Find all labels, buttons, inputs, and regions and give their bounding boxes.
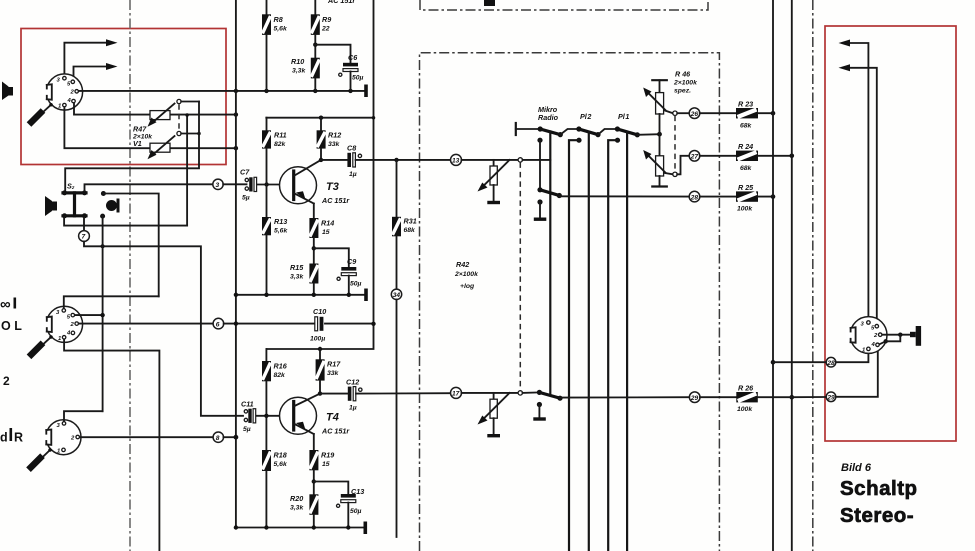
- svg-text:C8: C8: [347, 144, 356, 153]
- svg-text:C13: C13: [351, 487, 364, 496]
- speaker icon left margin top: [2, 82, 13, 101]
- svg-text:50µ: 50µ: [352, 75, 364, 82]
- svg-text:13: 13: [452, 158, 460, 165]
- svg-text:R 23: R 23: [738, 100, 753, 109]
- svg-text:1: 1: [58, 336, 61, 342]
- cable line from Pl2 lever down: [588, 132, 590, 551]
- wire node29 row to DIN pin 4: [792, 347, 878, 397]
- svg-text:4: 4: [871, 342, 876, 348]
- switch Pl2 pole a: [560, 126, 600, 137]
- resistor R9: [311, 0, 331, 58]
- capacitor C10: [310, 307, 326, 343]
- svg-text:2: 2: [873, 333, 878, 339]
- svg-text:68k: 68k: [740, 123, 753, 130]
- wire C10 to T4 supply rail: [267, 322, 376, 352]
- svg-text:50µ: 50µ: [350, 508, 362, 515]
- wire arrow to DIN pin 5: [849, 68, 877, 324]
- T4 stage ground rail: [234, 525, 364, 529]
- vertical bus x773: [771, 0, 776, 551]
- svg-text:∞: ∞: [0, 296, 11, 313]
- ground bar at mute contact: [534, 218, 547, 221]
- capacitor C12: [346, 378, 362, 412]
- svg-text:5µ: 5µ: [242, 195, 250, 202]
- chassis bar at end of pin2 rail: [364, 85, 368, 98]
- svg-text:68k: 68k: [740, 165, 753, 172]
- resistor R10: [291, 57, 320, 91]
- svg-text:34: 34: [393, 292, 401, 299]
- resistor R23: [700, 100, 776, 130]
- contact below Pl2 switch with cable: [569, 138, 582, 551]
- cable plug of DIN P1: [29, 103, 53, 124]
- wire R46b wiper to node 27: [677, 156, 689, 175]
- svg-text:2: 2: [3, 374, 10, 388]
- wire mute pole to node 28 row: [559, 195, 689, 197]
- wire node34 down: [396, 300, 398, 538]
- svg-text:d: d: [0, 431, 8, 445]
- resistor R15: [290, 263, 318, 295]
- svg-text:C6: C6: [348, 53, 358, 62]
- svg-text:2: 2: [70, 90, 75, 96]
- svg-text:R42: R42: [456, 260, 469, 269]
- node 34: [391, 289, 401, 299]
- svg-text:3,3k: 3,3k: [292, 68, 306, 75]
- resistor R14: [309, 204, 334, 264]
- switch bank terminator bar: [515, 123, 517, 135]
- wire aR pin2 to node 8: [80, 436, 213, 438]
- cable line from Pl1 lever down: [626, 132, 628, 551]
- label T3 AC151r: [321, 181, 350, 205]
- switch lower channel (mute b): [523, 390, 563, 418]
- svg-text:R 46: R 46: [675, 70, 691, 79]
- microphone icon at S2 pole2: [106, 199, 120, 213]
- svg-text:R 24: R 24: [738, 142, 753, 151]
- resistor R18: [262, 416, 288, 528]
- contact below Mikro switch: [537, 138, 542, 190]
- resistor R25: [700, 183, 776, 213]
- capacitor C13 (electrolytic): [314, 482, 364, 528]
- wire Pl1 to R46 junction: [637, 132, 662, 137]
- wire: R47a wiper feed down to S2: [65, 102, 199, 192]
- potentiometer R42a: [478, 160, 510, 204]
- connector DIN P2 (OL): [42, 306, 83, 342]
- cable line from Mikro lever down: [549, 132, 551, 395]
- switch S2 (speaker switch): [62, 182, 87, 219]
- arrow out top-left 2: [106, 63, 118, 70]
- vertical bus x791.8: [790, 0, 795, 551]
- wire: pin1 down to R47b row: [64, 107, 238, 150]
- red boundary box right (output section): [825, 26, 956, 441]
- resistor R16: [262, 349, 288, 416]
- svg-text:3,3k: 3,3k: [290, 274, 304, 281]
- svg-text:R12: R12: [328, 131, 341, 140]
- wire node13 to switch: [462, 159, 519, 161]
- potentiometer R47b (V1): [148, 131, 201, 159]
- wire: DIN P1 pin5 up and right to arrow: [74, 67, 109, 81]
- signal wire T4 collector to node 17: [320, 392, 451, 394]
- wire: S2 bottom-left loop: [64, 218, 187, 226]
- wire: pin4 to R47a row: [74, 103, 238, 117]
- gang link R47 dashed: [178, 104, 180, 131]
- gang mark R42a: [518, 158, 522, 162]
- svg-text:17: 17: [452, 391, 460, 398]
- transistor T3: [280, 158, 324, 204]
- chassis bar T4 rail: [364, 522, 368, 535]
- svg-text:R20: R20: [290, 494, 303, 503]
- resistor R26: [700, 384, 792, 414]
- svg-text:Pl 1: Pl 1: [618, 112, 629, 121]
- svg-text:28: 28: [826, 360, 835, 367]
- label R46: [673, 70, 698, 95]
- svg-text:R9: R9: [322, 15, 331, 24]
- arrow in top-right 1: [839, 40, 851, 47]
- svg-text:C11: C11: [241, 400, 254, 409]
- svg-text:O L: O L: [1, 319, 22, 333]
- capacitor C11: [241, 400, 256, 434]
- svg-text:C7: C7: [240, 168, 250, 177]
- connector DIN P4 (output right): [846, 317, 887, 354]
- svg-text:+log: +log: [460, 283, 475, 290]
- svg-text:R14: R14: [321, 219, 334, 228]
- svg-text:82k: 82k: [274, 141, 287, 148]
- capacitor C6 (electrolytic): [315, 45, 363, 91]
- svg-text:28: 28: [690, 194, 699, 201]
- node 28b at DIN: [826, 357, 836, 367]
- svg-text:5µ: 5µ: [243, 426, 251, 433]
- svg-text:26: 26: [690, 111, 699, 118]
- ground bar lower mute contact: [533, 417, 546, 420]
- wire lower mute pole to node 29 row: [560, 396, 689, 398]
- svg-text:82k: 82k: [274, 372, 287, 379]
- wire aR pin3 up to bus: [64, 411, 103, 421]
- capacitor C8: [347, 144, 362, 179]
- connector DIN P3 (aR): [42, 420, 82, 455]
- svg-text:15: 15: [322, 229, 330, 236]
- svg-text:C12: C12: [346, 378, 359, 387]
- switch Mikro/Radio pole b (mute): [537, 187, 562, 217]
- svg-text:100k: 100k: [737, 206, 753, 213]
- bottom bar R46: [652, 185, 667, 187]
- svg-text:Bild 6: Bild 6: [841, 462, 872, 474]
- svg-text:15: 15: [322, 461, 330, 468]
- S2 pole2 upper contact: [101, 191, 159, 296]
- svg-text:5,6k: 5,6k: [274, 228, 288, 235]
- cable plug of DIN P3: [29, 448, 52, 469]
- svg-text:27: 27: [690, 154, 699, 161]
- svg-text:33k: 33k: [327, 370, 340, 377]
- label Mikro Radio: [538, 105, 559, 122]
- svg-text:5,6k: 5,6k: [274, 461, 288, 468]
- svg-text:T4: T4: [326, 412, 339, 424]
- node 6: [213, 318, 224, 329]
- wire: R47a right terminal down: [186, 115, 188, 226]
- svg-text:R8: R8: [274, 15, 283, 24]
- svg-text:1: 1: [57, 449, 60, 455]
- svg-text:R47: R47: [133, 125, 147, 134]
- resistor R31: [392, 160, 417, 289]
- svg-text:8: 8: [216, 435, 220, 442]
- svg-text:1: 1: [58, 104, 61, 110]
- svg-text:R31: R31: [404, 217, 417, 226]
- svg-text:AC 151r: AC 151r: [327, 0, 356, 5]
- main vertical bus x236: [235, 0, 237, 528]
- label R42: [454, 260, 479, 290]
- wire OL pin1 down to shield bus: [64, 339, 159, 551]
- label T4 AC151r: [321, 412, 350, 436]
- contact below Pl1 switch with cable: [608, 138, 620, 551]
- svg-text:R 25: R 25: [738, 183, 754, 192]
- svg-text:1µ: 1µ: [349, 171, 357, 178]
- svg-text:R11: R11: [274, 131, 287, 140]
- potentiometer R46b: [643, 134, 673, 186]
- svg-text:50µ: 50µ: [350, 281, 362, 288]
- svg-text:1: 1: [862, 348, 865, 354]
- transistor T4: [280, 391, 323, 434]
- node 17: [451, 387, 462, 398]
- svg-text:2×100k: 2×100k: [673, 80, 698, 87]
- wire: node 7 down and right to T4 input feed: [84, 242, 243, 416]
- wire C11 to T4 base: [257, 414, 293, 418]
- svg-text:2: 2: [70, 436, 75, 442]
- wire node6 to C10: [224, 321, 315, 325]
- wire gang mark to mute contact: [523, 159, 551, 161]
- gang mark R46a: [673, 111, 677, 115]
- resistor R20: [290, 494, 318, 528]
- red boundary box left (tuner section): [21, 29, 226, 165]
- T3 stage ground rail: [234, 293, 366, 297]
- svg-text:C10: C10: [313, 307, 326, 316]
- dash-dot enclosure middle (switch unit): [420, 53, 720, 551]
- svg-text:4: 4: [66, 331, 71, 337]
- label R47 2x10k V1: [132, 125, 153, 149]
- svg-text:2×100k: 2×100k: [454, 271, 479, 278]
- wire OL pin5 to bus: [75, 313, 105, 317]
- resistor R11: [262, 118, 287, 185]
- potentiometer R42b: [478, 393, 510, 438]
- gang link R46 dashed: [674, 116, 676, 172]
- resistor R12: [317, 118, 342, 160]
- svg-text:Pl 2: Pl 2: [580, 112, 591, 121]
- cable plug of DIN P2: [29, 335, 53, 357]
- capacitor C9 (electrolytic): [314, 248, 362, 294]
- node 27: [689, 151, 700, 162]
- speaker icon at S2: [45, 196, 57, 216]
- S2 pole2 lower contact: [100, 214, 105, 412]
- wire node17 to switch: [462, 392, 519, 394]
- node 29: [689, 392, 700, 403]
- gang mark R46b: [673, 172, 677, 176]
- node 3: [213, 179, 223, 189]
- gang mark R42b: [518, 391, 522, 395]
- switch Mikro/Radio pole a: [516, 126, 563, 137]
- svg-text:T3: T3: [326, 181, 339, 193]
- wire node8 to bus x236: [224, 435, 239, 440]
- wire node28 row to DIN pin 1: [773, 351, 868, 362]
- wire: S2 top-right contact to node 3: [85, 184, 213, 191]
- T3 stage supply rail: [266, 116, 375, 120]
- node 8: [213, 432, 223, 442]
- resistor R19: [309, 434, 334, 494]
- svg-text:68k: 68k: [404, 227, 417, 234]
- resistor R17: [316, 349, 342, 394]
- resistor R13: [262, 185, 288, 295]
- svg-text:33k: 33k: [328, 141, 341, 148]
- svg-text:7: 7: [82, 234, 86, 241]
- svg-text:R16: R16: [274, 362, 288, 371]
- svg-text:6: 6: [216, 321, 220, 328]
- node 13: [451, 154, 462, 165]
- svg-text:4: 4: [67, 98, 72, 104]
- svg-text:3: 3: [216, 182, 220, 189]
- node 29b at DIN: [826, 392, 836, 402]
- svg-text:Stereo-: Stereo-: [840, 504, 914, 527]
- svg-text:AC 151r: AC 151r: [321, 427, 350, 436]
- wire OL pin3 up to S2 pole2: [64, 296, 159, 308]
- gang link R42 dashed: [519, 162, 521, 390]
- connector DIN P1 (top left, tuner input): [42, 74, 83, 110]
- left margin label a|R: [0, 428, 23, 445]
- speaker right: [910, 326, 921, 346]
- potentiometer R47a: [148, 99, 200, 126]
- svg-text:100µ: 100µ: [310, 336, 325, 343]
- wire pin2 to speaker: [882, 333, 911, 337]
- svg-text:R17: R17: [327, 360, 341, 369]
- resistor R24: [700, 142, 794, 172]
- signal wire T3 collector to node 13: [321, 158, 451, 162]
- svg-text:29: 29: [690, 395, 699, 402]
- arrow out top-left 1: [106, 39, 118, 46]
- wire C7 to T3 base: [258, 182, 293, 186]
- svg-text:29: 29: [826, 395, 835, 402]
- chassis dash-dot line left: [129, 0, 131, 551]
- vertical supply line x373: [373, 0, 375, 324]
- node 7: [79, 218, 90, 242]
- potentiometer R46a: [643, 80, 673, 134]
- left margin label oo|: [0, 296, 16, 313]
- resistor R8: [262, 0, 288, 91]
- wire pin4 loop to speaker junction: [880, 335, 901, 345]
- svg-text:Schaltp: Schaltp: [840, 477, 918, 500]
- switch Pl1 pole a: [598, 126, 640, 137]
- svg-text:S₂: S₂: [67, 182, 75, 191]
- chassis bar T3 rail: [364, 289, 368, 302]
- svg-text:100k: 100k: [737, 406, 753, 413]
- svg-text:Radio: Radio: [538, 113, 559, 122]
- svg-text:2: 2: [70, 322, 75, 328]
- node 26: [677, 108, 700, 119]
- chassis dash-dot line right: [812, 0, 814, 551]
- node 28: [689, 191, 700, 202]
- svg-text:3,3k: 3,3k: [290, 505, 304, 512]
- svg-text:C9: C9: [347, 257, 356, 266]
- wire: pin2 row to amplifier rail: [79, 89, 366, 93]
- svg-text:R19: R19: [321, 451, 334, 460]
- svg-text:R15: R15: [290, 263, 304, 272]
- svg-text:R10: R10: [291, 57, 304, 66]
- svg-text:AC 151r: AC 151r: [321, 196, 350, 205]
- wire OL pin2 to node 6: [79, 323, 213, 325]
- svg-text:5,6k: 5,6k: [274, 26, 288, 33]
- wire arrow to DIN pin 3: [849, 43, 868, 320]
- arrow in top-right 2: [839, 64, 851, 71]
- svg-text:spez.: spez.: [674, 88, 691, 95]
- svg-text:R13: R13: [274, 217, 287, 226]
- svg-text:R18: R18: [274, 451, 287, 460]
- svg-text:R 26: R 26: [738, 384, 754, 393]
- wire node3 to C7: [223, 183, 246, 185]
- capacitor C7: [240, 168, 257, 202]
- svg-text:22: 22: [321, 26, 330, 33]
- dash-dot enclosure top (cut off): [420, 0, 708, 10]
- svg-text:R: R: [14, 431, 23, 445]
- wire: DIN P1 pin3 up and right to arrow: [64, 43, 108, 78]
- svg-text:1µ: 1µ: [349, 405, 357, 412]
- svg-text:V1: V1: [133, 139, 142, 148]
